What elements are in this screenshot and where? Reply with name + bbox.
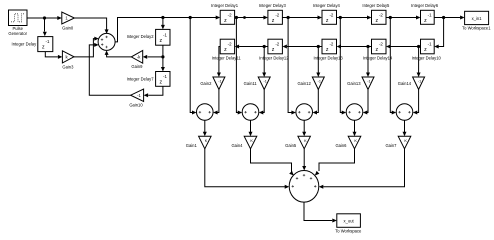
- sum block Sum2: [197, 104, 214, 121]
- svg-text:z: z: [160, 80, 163, 86]
- wire Integer Delay7 to Gain10: [144, 86, 163, 97]
- junction Integer Delay6 output branch: [442, 16, 445, 19]
- delay block Integer Delay (z^-1): [12, 37, 53, 52]
- wire Gain10 to Sum1 lower-left port: [89, 43, 130, 95]
- svg-text:-2: -2: [379, 12, 383, 17]
- gain Gain5: [285, 136, 310, 149]
- wire branch to Gain9: [143, 55, 163, 59]
- svg-text:z: z: [272, 18, 275, 24]
- wire Integer Delay4 to Integer Delay5: [337, 16, 372, 20]
- wire Gain3 to Sum1 upper-left port: [74, 37, 99, 57]
- wire Integer Delay5 to Integer Delay6: [386, 16, 421, 20]
- svg-text:Gain0: Gain0: [62, 25, 74, 30]
- wire Sum2 to Gain1: [203, 120, 207, 136]
- svg-text:-1: -1: [218, 80, 221, 84]
- wire Sum7 output to To Workspace: [304, 202, 337, 222]
- junction top line riser 3: [287, 16, 290, 19]
- svg-text:-1: -1: [418, 80, 421, 84]
- svg-text:-2: -2: [329, 12, 333, 17]
- wire branch down to Integer Delay: [43, 18, 47, 36]
- svg-text:z: z: [424, 47, 427, 53]
- wire riser 2 to Sum3 left port: [236, 18, 242, 115]
- svg-text:-1: -1: [428, 42, 432, 47]
- wire down to Integer Delay10: [434, 18, 443, 49]
- junction top line riser 2: [235, 16, 238, 19]
- delay block Integer Delay4 (z^-2): [313, 3, 341, 24]
- gain Gain9: [131, 51, 143, 70]
- wire Gain7 to big sum right port: [319, 149, 405, 189]
- wire Gain14 to Sum6 right port: [413, 90, 419, 115]
- delay block Integer Delay10 (z^-1): [412, 39, 442, 60]
- svg-text:z: z: [224, 18, 227, 24]
- svg-text:-2: -2: [379, 42, 383, 47]
- source block Pulse Generator: [8, 10, 27, 36]
- svg-text:Gain6: Gain6: [335, 143, 347, 148]
- svg-text:Integer Delay6: Integer Delay6: [411, 3, 439, 8]
- svg-text:-1: -1: [137, 93, 141, 98]
- svg-text:K: K: [304, 139, 307, 143]
- delay block Integer Delay14 (z^-2): [363, 39, 393, 60]
- sum block Sum6: [396, 104, 413, 121]
- svg-text:Integer Delay5: Integer Delay5: [362, 3, 390, 8]
- gain Gain13: [347, 77, 374, 90]
- wire Sum5 to Gain6: [353, 120, 357, 136]
- svg-text:z: z: [272, 47, 275, 53]
- wire riser 4 to Sum5 left port: [340, 18, 346, 115]
- wire Integer Delay12 output to Integer Delay11: [235, 45, 268, 49]
- svg-text:Gain3: Gain3: [62, 65, 74, 70]
- delay block Integer Delay1 (z^-2): [211, 3, 239, 24]
- svg-text:-1: -1: [367, 80, 370, 84]
- delay block Integer Delay6 (z^-1): [411, 3, 439, 24]
- wire Gain9 to Sum1 bottom port: [105, 50, 132, 57]
- junction branch to Gain12: [317, 45, 320, 48]
- svg-text:K: K: [404, 139, 407, 143]
- delay block Integer Delay11 (z^-2): [212, 39, 242, 60]
- svg-text:-1: -1: [46, 39, 50, 44]
- svg-text:-2: -2: [329, 42, 333, 47]
- wire Integer Delay1 to Integer Delay3: [235, 16, 268, 20]
- svg-text:K: K: [250, 139, 253, 143]
- gain Gain0: [62, 12, 75, 30]
- svg-text:Integer Delay7: Integer Delay7: [127, 77, 155, 82]
- gain Gain2: [200, 77, 225, 90]
- wire Gain4 to big sum upper-left port: [251, 149, 294, 176]
- svg-text:Gain12: Gain12: [297, 81, 311, 86]
- gain Gain7: [385, 136, 410, 149]
- wire riser 1 to Sum2 left port: [190, 18, 196, 115]
- wire Sum1 output to top line: [115, 16, 220, 42]
- gain Gain3: [62, 51, 74, 70]
- svg-text:z: z: [376, 47, 379, 53]
- wire Sum3 to Gain4: [249, 120, 253, 136]
- svg-text:Integer Delay1: Integer Delay1: [211, 3, 239, 8]
- wire Integer Delay11 output to Gain2: [217, 47, 221, 78]
- delay block Integer Delay3 (z^-2): [259, 3, 287, 24]
- svg-text:Gain4: Gain4: [231, 143, 243, 148]
- delay block Integer Delay5 (z^-2): [362, 3, 390, 24]
- wire Integer Delay6 to To Workspace1: [434, 16, 464, 20]
- svg-text:z: z: [160, 38, 163, 44]
- delay block Integer Delay12 (z^-2): [259, 39, 289, 60]
- svg-text:Gain5: Gain5: [285, 143, 297, 148]
- svg-text:-2: -2: [228, 12, 232, 17]
- svg-text:x_out: x_out: [344, 218, 355, 223]
- delay block Integer Delay13 (z^-2): [313, 39, 343, 60]
- wire Gain1 to big sum left port: [205, 149, 289, 189]
- gain Gain1: [186, 136, 211, 149]
- delay block Integer Delay7 (z^-1): [127, 72, 170, 87]
- gain Gain14: [398, 77, 425, 90]
- svg-text:-1: -1: [428, 12, 432, 17]
- wire Integer Delay10 output to Integer Delay14: [386, 45, 421, 49]
- wire Integer Delay14 output to Integer Delay13: [337, 45, 372, 49]
- svg-text:K: K: [205, 139, 208, 143]
- svg-text:Integer Delay2: Integer Delay2: [127, 34, 155, 39]
- sink block To Workspace (x_out): [335, 214, 362, 234]
- svg-text:Integer Delay4: Integer Delay4: [313, 3, 341, 8]
- svg-text:To Workspace: To Workspace: [335, 229, 362, 234]
- svg-text:Generator: Generator: [8, 31, 27, 36]
- wire Integer Delay2 output down: [161, 45, 165, 71]
- wire Gain2 to Sum2 right port: [213, 90, 219, 115]
- svg-text:-1: -1: [264, 80, 267, 84]
- wire Integer Delay to Gain3: [45, 52, 62, 59]
- svg-text:x_in1: x_in1: [472, 16, 483, 21]
- delay block Integer Delay2 (z^-1): [127, 29, 170, 45]
- wire Gain0 to Sum1 top port: [74, 18, 108, 34]
- svg-text:K: K: [354, 139, 357, 143]
- wire riser 5 to Sum6 left port: [390, 18, 396, 115]
- gain Gain11: [244, 77, 271, 90]
- junction extra dot after Integer Delay1: [243, 16, 246, 19]
- wire Gain13 to Sum5 right port: [363, 90, 368, 115]
- svg-text:-1: -1: [163, 32, 167, 37]
- svg-text:-1: -1: [163, 74, 167, 79]
- wire Gain6 to big sum upper-right port: [315, 149, 355, 176]
- svg-text:z: z: [376, 18, 379, 24]
- wire branch down to Gain12: [316, 47, 320, 78]
- svg-text:Gain11: Gain11: [244, 81, 258, 86]
- svg-text:Gain1: Gain1: [186, 143, 198, 148]
- svg-text:Integer Delay: Integer Delay: [12, 42, 38, 47]
- wire Sum4 to Gain5: [302, 120, 306, 136]
- wire branch down to Gain14: [417, 47, 421, 78]
- svg-text:Gain7: Gain7: [385, 143, 397, 148]
- wire Gain5 to big sum top port: [302, 149, 306, 171]
- sum block Sum7 (output adder): [289, 171, 319, 203]
- wire Gain12 to Sum4 right port: [313, 90, 319, 115]
- sum block Sum4: [296, 104, 313, 121]
- wire Sum6 to Gain7: [403, 120, 407, 136]
- junction branch to Gain13: [366, 45, 369, 48]
- svg-text:z: z: [424, 18, 427, 24]
- svg-text:To Workspace1: To Workspace1: [462, 26, 491, 31]
- wire down into Integer Delay2: [161, 18, 165, 30]
- svg-text:Gain9: Gain9: [131, 64, 143, 69]
- svg-text:-2: -2: [275, 12, 279, 17]
- gain Gain4: [231, 136, 256, 149]
- svg-text:Integer Delay10: Integer Delay10: [412, 55, 442, 60]
- sum block Sum3: [242, 104, 259, 121]
- svg-text:Gain13: Gain13: [347, 81, 361, 86]
- svg-text:z: z: [224, 47, 227, 53]
- junction top line riser 1: [189, 16, 192, 19]
- svg-text:-1: -1: [318, 80, 321, 84]
- svg-text:z: z: [326, 18, 329, 24]
- wire Pulse Generator to Gain0: [27, 16, 62, 20]
- svg-text:Integer Delay14: Integer Delay14: [363, 55, 393, 60]
- gain Gain10: [129, 89, 143, 108]
- svg-text:z: z: [42, 45, 45, 51]
- svg-text:z: z: [326, 47, 329, 53]
- junction top line riser 4: [339, 16, 342, 19]
- svg-text:Gain2: Gain2: [200, 81, 212, 86]
- svg-text:-2: -2: [275, 42, 279, 47]
- svg-text:Gain14: Gain14: [398, 81, 412, 86]
- junction top line riser 5: [389, 16, 392, 19]
- svg-text:-2: -2: [228, 42, 232, 47]
- wire Integer Delay3 to Integer Delay4: [282, 16, 322, 20]
- svg-text:Integer Delay11: Integer Delay11: [212, 55, 242, 60]
- wire Gain11 to Sum3 right port: [259, 90, 264, 115]
- gain Gain12: [297, 77, 324, 90]
- svg-text:Integer Delay3: Integer Delay3: [259, 3, 287, 8]
- sink block To Workspace1 (x_in1): [462, 11, 491, 30]
- wire branch down to Gain13: [366, 47, 370, 78]
- gain Gain6: [335, 136, 360, 149]
- svg-text:Gain10: Gain10: [129, 103, 143, 108]
- wire riser 3 to Sum4 left port: [288, 18, 296, 115]
- wire Integer Delay13 output to Integer Delay12: [282, 45, 322, 49]
- junction top line to Integer Delay2: [161, 16, 164, 19]
- junction branch to Gain11: [263, 45, 266, 48]
- wire branch down to Gain11: [262, 47, 266, 78]
- junction branch to Gain14: [417, 45, 420, 48]
- junction Integer Delay2 output branch: [161, 55, 164, 58]
- sum block Sum5: [346, 104, 363, 121]
- junction pulse output branch: [43, 16, 46, 19]
- sum block Sum1: [98, 33, 115, 50]
